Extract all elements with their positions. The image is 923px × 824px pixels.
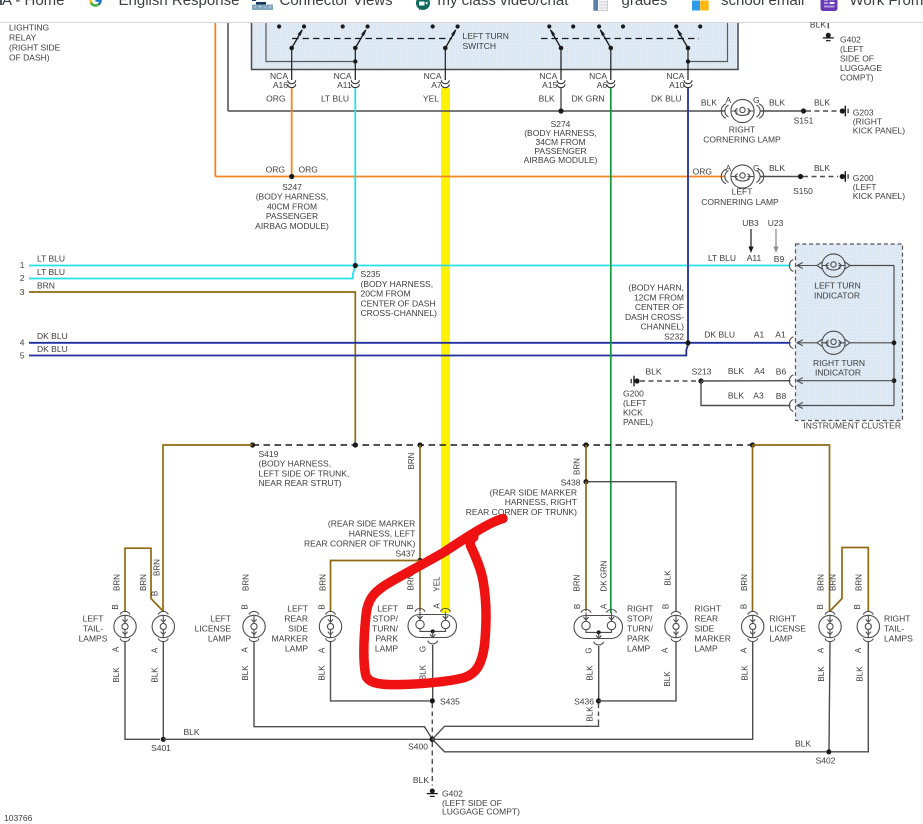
svg-text:20CM FROM: 20CM FROM (361, 289, 411, 299)
instrument cluster box (796, 244, 903, 431)
wire BRN S437 to left stop lamp B (419, 561, 421, 612)
svg-text:MARKER: MARKER (695, 634, 731, 644)
svg-text:LT BLU: LT BLU (321, 94, 349, 104)
svg-text:BLK: BLK (814, 163, 830, 173)
svg-text:1: 1 (20, 260, 25, 270)
svg-text:3: 3 (20, 287, 25, 297)
connector U23 (768, 218, 784, 253)
svg-text:BRN: BRN (817, 574, 826, 591)
svg-text:A16: A16 (273, 80, 288, 90)
wire BLK left stop lamp G to S435 (432, 645, 434, 701)
browser bookmarks bar (0, 0, 923, 22)
right stop/turn/park lamp (574, 604, 654, 654)
svg-text:A: A (318, 647, 327, 653)
svg-text:DASH CROSS-: DASH CROSS- (625, 312, 684, 322)
splice S400 (408, 737, 435, 752)
svg-text:LT BLU: LT BLU (37, 254, 65, 264)
left turn indicator (789, 254, 894, 300)
left cornering lamp (693, 163, 779, 207)
svg-text:BLK: BLK (413, 775, 429, 785)
svg-text:CENTER OF: CENTER OF (635, 302, 684, 312)
splice S247 (255, 165, 329, 231)
wire BLK S213 to cluster A4/B6 (701, 366, 894, 387)
svg-text:BRN: BRN (37, 281, 55, 291)
ground G200 left kick panel (623, 376, 653, 427)
svg-text:PANEL): PANEL) (623, 417, 653, 427)
lighting relay label (9, 23, 61, 63)
wire BLK right stop lamp G to S436 (598, 646, 600, 701)
svg-text:LAMP: LAMP (375, 644, 398, 654)
svg-text:INSTRUMENT CLUSTER: INSTRUMENT CLUSTER (803, 421, 901, 431)
svg-text:S438: S438 (561, 478, 581, 488)
left turn switch box (252, 23, 739, 70)
svg-text:A11: A11 (337, 80, 352, 90)
ground G402 top right (823, 33, 883, 83)
svg-text:LEFT SIDE OF TRUNK,: LEFT SIDE OF TRUNK, (259, 468, 350, 478)
svg-text:LAMPS: LAMPS (884, 634, 913, 644)
svg-text:NEAR REAR STRUT): NEAR REAR STRUT) (259, 478, 342, 488)
wire BLK lamp to S151 (760, 110, 801, 112)
svg-text:(BODY HARNESS,: (BODY HARNESS, (256, 192, 329, 202)
cluster pin labels DK BLU A1 A1 (704, 329, 786, 339)
wire BLK A15 (560, 88, 562, 111)
splice S438 (466, 478, 589, 517)
switch pole A16 (277, 24, 306, 80)
wire BLK S151 to G203 (dashed) (806, 110, 838, 112)
splice S232 (625, 283, 691, 346)
svg-text:ORG: ORG (299, 165, 318, 175)
svg-text:SIDE OF: SIDE OF (840, 54, 874, 64)
wire ORG from lighting relay (214, 23, 216, 177)
svg-text:BLK: BLK (586, 706, 595, 722)
svg-text:INDICATOR: INDICATOR (814, 290, 860, 300)
svg-text:HARNESS, LEFT: HARNESS, LEFT (349, 529, 416, 539)
svg-text:BLK: BLK (817, 666, 826, 682)
school email favicon (692, 0, 709, 11)
svg-text:BLK: BLK (795, 739, 811, 749)
svg-text:4: 4 (20, 338, 25, 348)
grades favicon (593, 0, 608, 11)
svg-text:DK BLU: DK BLU (37, 331, 68, 341)
svg-text:KICK PANEL): KICK PANEL) (853, 126, 905, 136)
svg-text:BRN: BRN (113, 574, 122, 591)
svg-text:BLK: BLK (151, 667, 160, 683)
svg-text:A6: A6 (597, 80, 608, 90)
switch pole A7 (431, 24, 460, 80)
splice S402 (816, 749, 836, 765)
svg-text:BLK: BLK (769, 98, 785, 108)
svg-text:INDICATOR: INDICATOR (815, 368, 861, 378)
wire BLK S150 to G200 (dashed) (803, 176, 838, 178)
svg-text:A: A (854, 647, 863, 653)
svg-text:A: A (661, 647, 670, 653)
pin A15 connector (539, 71, 565, 104)
left rear side marker lamp (272, 604, 342, 654)
svg-text:ORG: ORG (266, 94, 285, 104)
wire BLK S401 to S400 (163, 727, 432, 739)
svg-text:PASSENGER: PASSENGER (266, 211, 318, 221)
wire DK GRN A6 to right stop lamp (610, 88, 612, 613)
svg-text:LICENSE: LICENSE (195, 624, 232, 634)
wire BLK lamp to S150 (760, 176, 798, 178)
svg-text:RIGHT: RIGHT (627, 604, 653, 614)
wire BLK left tail lamp 1 to S401 (125, 642, 160, 740)
svg-text:(BODY HARN,: (BODY HARN, (628, 283, 684, 293)
svg-text:REAR: REAR (284, 614, 308, 624)
svg-text:LEFT: LEFT (377, 604, 398, 614)
svg-text:B: B (740, 604, 749, 609)
splice S435 (430, 697, 460, 707)
svg-text:A: A (151, 647, 160, 653)
svg-text:S419: S419 (259, 449, 279, 459)
svg-text:BRN: BRN (573, 458, 582, 475)
svg-text:BLK: BLK (769, 163, 785, 173)
svg-text:BLK: BLK (701, 98, 717, 108)
svg-text:BLK: BLK (728, 391, 744, 401)
svg-text:ORG: ORG (693, 167, 712, 177)
svg-text:LAMP: LAMP (208, 634, 231, 644)
svg-text:REAR CORNER OF TRUNK): REAR CORNER OF TRUNK) (466, 507, 577, 517)
svg-text:BLK: BLK (112, 667, 121, 683)
svg-text:A11: A11 (747, 253, 762, 263)
right tail lamp 2 (857, 611, 913, 643)
svg-text:BLK: BLK (241, 665, 250, 681)
svg-text:LAMP: LAMP (695, 644, 718, 654)
svg-text:STOP/: STOP/ (373, 614, 399, 624)
wire BLK S436 to right marker lamp (599, 642, 677, 701)
red marker annotation (364, 519, 503, 685)
svg-text:12CM FROM: 12CM FROM (634, 292, 684, 302)
right turn indicator (789, 331, 894, 377)
ground G203 (840, 106, 906, 136)
svg-text:REAR: REAR (695, 614, 719, 624)
svg-text:G402: G402 (442, 789, 463, 799)
svg-text:BLK: BLK (419, 664, 428, 680)
svg-text:BRN: BRN (153, 559, 162, 576)
svg-text:BRN: BRN (319, 574, 328, 591)
connector views favicon (252, 0, 273, 10)
svg-text:B6: B6 (776, 367, 787, 377)
svg-text:RIGHT: RIGHT (770, 614, 796, 624)
wire BLK S435 to S400 (431, 704, 433, 737)
svg-text:103766: 103766 (4, 813, 33, 823)
svg-text:DK BLU: DK BLU (651, 94, 682, 104)
svg-text:LEFT TURN: LEFT TURN (463, 31, 509, 41)
svg-text:MARKER: MARKER (272, 634, 308, 644)
svg-text:A: A (726, 95, 732, 105)
svg-text:OF DASH): OF DASH) (9, 53, 50, 63)
svg-text:A1: A1 (775, 329, 786, 339)
pin A16 connector (266, 71, 296, 104)
svg-text:S232: S232 (664, 332, 684, 342)
trunk harness dashed bus (253, 444, 753, 446)
svg-text:(BODY HARNESS,: (BODY HARNESS, (361, 279, 434, 289)
svg-text:BRN: BRN (242, 574, 251, 591)
svg-text:S235: S235 (361, 269, 381, 279)
svg-text:ORG: ORG (266, 165, 285, 175)
svg-text:BLK: BLK (318, 665, 327, 681)
svg-text:LAMP: LAMP (285, 644, 308, 654)
svg-text:CHANNEL): CHANNEL) (641, 322, 685, 332)
svg-text:2: 2 (20, 273, 25, 283)
svg-text:S213: S213 (692, 367, 712, 377)
splice S213 (692, 367, 712, 384)
svg-text:A3: A3 (753, 391, 764, 401)
svg-text:U23: U23 (768, 218, 784, 228)
wire LT BLU A11 to S235 (354, 88, 356, 266)
svg-text:A: A (112, 646, 121, 652)
svg-text:5: 5 (20, 351, 25, 361)
right cornering lamp (701, 95, 781, 145)
wire BRN S438 to right stop lamp B (585, 482, 587, 611)
svg-text:LICENSE: LICENSE (770, 624, 807, 634)
svg-text:B: B (662, 604, 671, 609)
svg-text:BLK: BLK (664, 570, 673, 586)
row 1 wire LT BLU (20, 254, 791, 271)
splice S274 (524, 108, 598, 165)
pin A10 connector (651, 71, 692, 104)
svg-text:S400: S400 (408, 742, 428, 752)
wire BLK relay box bottom to right cornering lamp (228, 110, 726, 112)
switch internal bus left (266, 23, 357, 64)
svg-text:LUGGAGE COMPT): LUGGAGE COMPT) (442, 807, 520, 817)
svg-text:G402: G402 (840, 35, 861, 45)
svg-text:CROSS-CHANNEL): CROSS-CHANNEL) (361, 308, 438, 318)
svg-text:LUGGAGE: LUGGAGE (840, 63, 882, 73)
wire BLK right tail lamp 1 to S402 (829, 642, 830, 751)
svg-text:SIDE: SIDE (288, 624, 308, 634)
svg-text:S151: S151 (794, 116, 814, 126)
svg-text:A4: A4 (754, 366, 765, 376)
svg-text:RIGHT: RIGHT (884, 614, 910, 624)
svg-text:SWITCH: SWITCH (463, 41, 497, 51)
svg-text:LAMP: LAMP (627, 644, 650, 654)
svg-text:PARK: PARK (627, 634, 650, 644)
svg-text:S401: S401 (151, 743, 171, 753)
svg-text:SIDE: SIDE (695, 624, 715, 634)
svg-text:BRN: BRN (407, 452, 416, 469)
svg-text:B8: B8 (776, 391, 787, 401)
svg-text:S436: S436 (574, 697, 594, 707)
left tail lamp 2 (152, 611, 174, 641)
connector UB3 (742, 218, 759, 253)
wire BLK S438 to right rear side marker (586, 482, 676, 611)
svg-text:DK BLU: DK BLU (704, 329, 735, 339)
switch internal bus right (686, 23, 728, 64)
svg-text:KICK: KICK (623, 408, 643, 418)
left license lamp (195, 611, 266, 643)
svg-text:40CM FROM: 40CM FROM (267, 201, 317, 211)
svg-text:BLK: BLK (539, 94, 555, 104)
wire DK BLU A10 to S232 (687, 88, 689, 343)
terminal labels above lamps (111, 591, 862, 610)
svg-text:S437: S437 (395, 549, 415, 559)
wire BLK S400 to G402 (413, 742, 432, 786)
left stop/turn/park lamp (372, 604, 456, 654)
right license lamp (742, 611, 807, 643)
wire ORG to left cornering lamp (215, 176, 725, 178)
wire BRN S437 to left rear side marker (331, 561, 421, 612)
left tail lamp 1 (79, 611, 137, 643)
svg-text:CORNERING LAMP: CORNERING LAMP (701, 197, 779, 207)
switch pole A11 (341, 24, 370, 80)
splice S235 (353, 263, 437, 318)
svg-text:LAMP: LAMP (770, 634, 793, 644)
ground G402 bottom (427, 789, 520, 817)
svg-text:B: B (318, 604, 327, 609)
switch pole A10 (674, 24, 702, 80)
rotated BLK labels below lamps (112, 664, 865, 686)
google favicon (88, 0, 103, 8)
svg-text:BLK: BLK (728, 366, 744, 376)
svg-text:A15: A15 (542, 80, 557, 90)
cluster pin labels LT BLU A11 B9 (708, 253, 785, 264)
wire ORG A16 (291, 88, 293, 177)
switch pole A6 (597, 24, 625, 80)
svg-text:BLK: BLK (645, 367, 661, 377)
svg-text:S150: S150 (793, 186, 813, 196)
splice S436 (574, 697, 601, 707)
svg-text:CORNERING LAMP: CORNERING LAMP (703, 135, 781, 145)
svg-text:CENTER OF DASH: CENTER OF DASH (361, 298, 436, 308)
svg-text:B: B (241, 604, 250, 609)
svg-text:BLK: BLK (856, 666, 865, 682)
svg-text:UB3: UB3 (742, 218, 759, 228)
svg-text:A: A (817, 647, 826, 653)
svg-text:B: B (573, 604, 582, 609)
svg-text:G: G (753, 95, 760, 105)
wire BLK left marker lamp to S435 (331, 642, 430, 701)
row 4 wire DK BLU (20, 331, 791, 348)
svg-text:(LEFT: (LEFT (623, 398, 647, 408)
wire BRN bus to right license and right tail lamps (750, 442, 830, 611)
wire BRN S419 to left tail lamps (163, 445, 253, 611)
ground G200 right kick panel (840, 171, 906, 201)
svg-text:TAIL-: TAIL- (884, 624, 904, 634)
splice S150 (793, 174, 813, 196)
switch linkage dashed line (292, 38, 452, 40)
left tail lamps brown jumper (125, 548, 163, 611)
wire BRN bus to S437 (407, 442, 422, 560)
svg-text:YEL: YEL (423, 94, 439, 104)
svg-text:BLK: BLK (184, 727, 200, 737)
node at bus x355 (353, 442, 358, 447)
wire BLK S400 to S402 (432, 739, 826, 752)
splice S151 (794, 108, 814, 125)
work form favicon (820, 0, 838, 11)
svg-text:G200: G200 (623, 389, 644, 399)
pin A11 connector (321, 71, 359, 104)
svg-text:BRN: BRN (740, 574, 749, 591)
right rear side marker lamp (665, 604, 731, 654)
row 2 wire LT BLU (20, 267, 355, 283)
svg-text:B: B (111, 604, 120, 609)
splice S401 (151, 737, 171, 753)
svg-text:S247: S247 (282, 182, 302, 192)
svg-text:(LEFT: (LEFT (840, 44, 864, 54)
pin A7 connector (423, 71, 449, 104)
svg-text:LIGHTING: LIGHTING (9, 23, 49, 33)
svg-text:BLK: BLK (586, 665, 595, 681)
svg-text:B: B (853, 604, 862, 609)
svg-text:BRN: BRN (573, 574, 582, 591)
svg-text:TURN/: TURN/ (627, 624, 654, 634)
right tail lamp 1 (819, 611, 841, 641)
svg-text:LEFT: LEFT (83, 614, 104, 624)
switch pole A15 (547, 24, 575, 80)
wire BLK S213 to G200 dashed (640, 380, 698, 382)
row 3 wire BRN (20, 281, 356, 446)
svg-text:AIRBAG MODULE): AIRBAG MODULE) (524, 155, 598, 165)
wire BRN bus to S438 (573, 442, 589, 481)
svg-text:LT BLU: LT BLU (708, 253, 736, 263)
svg-text:A: A (600, 603, 609, 609)
relay box outline (227, 23, 229, 111)
svg-text:G: G (585, 647, 594, 653)
svg-text:B9: B9 (774, 254, 785, 264)
svg-text:LEFT: LEFT (210, 614, 231, 624)
pin A6 connector (571, 71, 614, 104)
svg-text:KICK PANEL): KICK PANEL) (853, 191, 905, 201)
svg-text:A10: A10 (669, 80, 684, 90)
wire BLK S400 to right license lamp (432, 642, 752, 740)
rotated wire labels above lamps (113, 559, 864, 592)
svg-text:DK BLU: DK BLU (37, 344, 68, 354)
svg-text:A: A (241, 647, 250, 653)
svg-text:B: B (816, 604, 825, 609)
svg-text:B: B (151, 591, 160, 596)
svg-text:STOP/: STOP/ (627, 614, 653, 624)
svg-text:LEFT: LEFT (732, 187, 753, 197)
wire BLK right tail lamp 2 to S402 (831, 642, 868, 752)
wire BLK left license lamp to S400 (254, 642, 432, 740)
svg-text:COMPT): COMPT) (840, 73, 874, 83)
svg-text:(RIGHT SIDE: (RIGHT SIDE (9, 43, 61, 53)
svg-text:TAIL-: TAIL- (83, 624, 103, 634)
svg-text:YEL: YEL (433, 576, 442, 592)
svg-text:RIGHT: RIGHT (695, 604, 721, 614)
wire YEL A7 to left stop lamp (441, 88, 450, 613)
right tail lamps brown jumper (830, 548, 868, 612)
cluster internal bus (892, 266, 897, 406)
svg-text:REAR CORNER OF TRUNK): REAR CORNER OF TRUNK) (304, 539, 415, 549)
svg-text:BRN: BRN (829, 574, 838, 591)
wire BLK to G402 top right (810, 20, 828, 30)
svg-text:A: A (433, 603, 442, 609)
svg-text:(REAR SIDE MARKER: (REAR SIDE MARKER (328, 519, 415, 529)
svg-text:A: A (740, 647, 749, 653)
svg-text:A7: A7 (431, 80, 442, 90)
svg-text:LAMPS: LAMPS (79, 634, 108, 644)
svg-text:G: G (419, 646, 428, 652)
svg-text:DK GRN: DK GRN (571, 94, 604, 104)
video chat favicon (416, 0, 430, 11)
splice S437 (304, 519, 423, 564)
splice S419 (250, 442, 349, 488)
terminal labels below lamps (112, 646, 864, 654)
svg-text:A1: A1 (754, 329, 765, 339)
svg-text:RIGHT: RIGHT (729, 125, 755, 135)
wire BLK left tail lamp 2 to S401 (162, 642, 164, 740)
svg-text:PARK: PARK (375, 634, 398, 644)
svg-text:B: B (406, 604, 415, 609)
svg-text:DK GRN: DK GRN (600, 560, 609, 591)
svg-text:(BODY HARNESS,: (BODY HARNESS, (259, 459, 332, 469)
svg-text:BRN: BRN (139, 574, 148, 591)
svg-text:AIRBAG MODULE): AIRBAG MODULE) (255, 221, 329, 231)
svg-text:LT BLU: LT BLU (37, 267, 65, 277)
wire BLK S213 branch to cluster A3/B8 (701, 381, 894, 412)
